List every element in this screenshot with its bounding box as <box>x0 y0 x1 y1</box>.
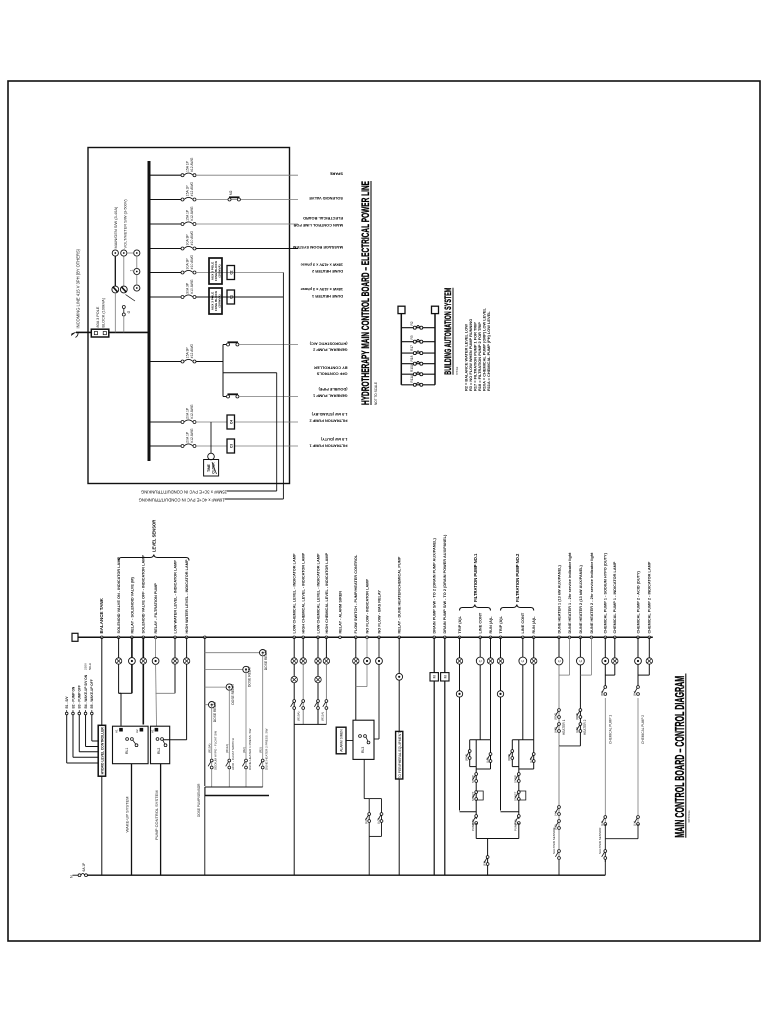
wire to collector Y326.4 <box>325 664 327 724</box>
contact low level CHEMICAL PUMP 1 <box>602 816 607 826</box>
bracket filtration pump no.1 <box>460 553 491 611</box>
wire siren to relay3 <box>346 740 353 742</box>
wire elbow jog <box>119 692 121 694</box>
wire heater1 merge <box>559 674 570 676</box>
svg-text:ACID - FLOAT SWITCH: ACID - FLOAT SWITCH <box>231 738 235 770</box>
coil dose relay 2 <box>243 666 249 672</box>
contact chem Y294.2 <box>291 700 296 710</box>
wire N rail <box>87 874 605 876</box>
contact salt sensor h <box>555 850 560 860</box>
wire rung CHEMICAL PUMP 2 lamp <box>648 637 650 658</box>
svg-text:LEVEL SENSOR: LEVEL SENSOR <box>152 520 157 552</box>
wire dose group output <box>205 795 269 797</box>
lamp trip Y500.5 <box>497 658 503 664</box>
svg-text:TRIP (A)L: TRIP (A)L <box>458 615 462 633</box>
contact chem Y326.4 <box>323 700 328 710</box>
wire incoming drop <box>76 331 91 333</box>
coil relay filtration pump <box>152 658 159 665</box>
svg-text:BY CONTROLLER: BY CONTROLLER <box>314 365 348 370</box>
wire starter loop Y522.8 <box>512 739 533 741</box>
contact LC2 <box>378 813 383 823</box>
wire time clock tee <box>210 422 212 453</box>
wire rung CHEMICAL PUMP 1 lamp <box>614 637 616 658</box>
svg-text:FILTRATION PUMP 2: FILTRATION PUMP 2 <box>309 418 348 423</box>
relay box RL2 pump control <box>150 726 169 764</box>
breaker 30A 3P branch X727.0 <box>181 295 196 299</box>
wire main bus 415V <box>148 161 151 461</box>
title main control board control diagram <box>672 674 691 838</box>
wire starter loop Y480.2 <box>470 739 491 741</box>
svg-text:GENERAL PUMP 2: GENERAL PUMP 2 <box>312 348 347 353</box>
svg-text:SALT/SW SENSOR: SALT/SW SENSOR <box>552 827 556 854</box>
svg-text:NO FLOW - BAS RELAY: NO FLOW - BAS RELAY <box>377 590 381 634</box>
svg-text:FILTRATION PUMP NO.2: FILTRATION PUMP NO.2 <box>515 553 520 602</box>
svg-text:R11A = CHEMICAL PUMP (PH) LO: R11A = CHEMICAL PUMP (PH) LOW LEVEL <box>486 311 491 391</box>
svg-text:HYDRO LEVEL CONTROLLER: HYDRO LEVEL CONTROLLER <box>101 727 105 775</box>
lamp chemical pump 2 <box>646 658 652 664</box>
incoming arrow <box>71 332 77 337</box>
svg-text:G: G <box>127 310 131 313</box>
svg-text:25MM² x 3C+E PVC IN CONDUIT/TR: 25MM² x 3C+E PVC IN CONDUIT/TRUNKING <box>141 490 227 495</box>
svg-text:CHEMICAL PUMP 2: CHEMICAL PUMP 2 <box>641 715 645 744</box>
svg-text:DRAIN PUMP S/W - TO 2 (DRAIN P: DRAIN PUMP S/W - TO 2 (DRAIN POWER AUX/P… <box>443 534 447 633</box>
svg-text:LOW CHEMICAL LEVEL - INDICATOR: LOW CHEMICAL LEVEL - INDICATOR LAMP <box>293 553 297 633</box>
svg-text:LINE CONT: LINE CONT <box>521 612 525 633</box>
contact chem Y318.0 <box>314 700 319 710</box>
svg-text:(R17): (R17) <box>507 754 511 761</box>
wire seal-in elbow Y533.7 <box>519 768 534 770</box>
contact R17 Y480.2 <box>466 750 471 760</box>
svg-text:15A 1P: 15A 1P <box>185 209 189 221</box>
svg-text:R18: R18 <box>410 355 414 361</box>
svg-text:(R11A): (R11A) <box>225 744 229 753</box>
svg-text:HEATER 2: HEATER 2 <box>583 719 587 735</box>
svg-text:STOP: STOP <box>471 775 475 783</box>
svg-text:15A 3P: 15A 3P <box>185 347 189 359</box>
wire rung no flow lamp <box>366 637 368 657</box>
wire CHEMICAL PUMP 1 merge <box>605 674 615 676</box>
svg-text:(R2): (R2) <box>259 747 263 753</box>
fuse box drain Y444.8 <box>441 673 449 681</box>
coil chemical pump 2 <box>635 658 642 665</box>
aux fuse block heater 1 <box>209 288 222 314</box>
svg-text:MAIN/GEN S/W (3-40A): MAIN/GEN S/W (3-40A) <box>113 206 118 248</box>
contact stop Y522.8 <box>515 773 520 783</box>
svg-text:TO PERIPHERAL EQUIPMENT: TO PERIPHERAL EQUIPMENT <box>398 732 402 779</box>
wire GP tee <box>222 345 224 397</box>
svg-text:CHEMICAL PUMP 2 - ACID (DUTY): CHEMICAL PUMP 2 - ACID (DUTY) <box>636 570 640 633</box>
wire lamp to collector Y318.0 <box>317 683 319 725</box>
wire filtration after breaker X578.0 <box>196 445 298 447</box>
svg-text:(HO): (HO) <box>575 727 579 733</box>
wire dose feed X319.3 <box>205 704 209 706</box>
contact sodium hypo - float sw <box>208 759 213 769</box>
lamp on rail Y294.2 <box>291 658 297 664</box>
contactor C1 heater 1 <box>227 290 235 304</box>
svg-text:C4: C4 <box>230 420 234 424</box>
wire rung run Y490.5 <box>490 637 492 658</box>
wire BAS rail 2 <box>434 314 436 385</box>
wire rung drain Y444.8 <box>444 637 446 672</box>
svg-text:ALARM SIREN: ALARM SIREN <box>340 729 344 752</box>
contact BAS R3 <box>413 340 423 344</box>
svg-text:(R17): (R17) <box>554 713 558 720</box>
wire chain mid Y480.2 <box>475 740 477 819</box>
svg-text:20A 1P: 20A 1P <box>185 407 189 419</box>
lamp trip Y459.5 <box>456 658 462 664</box>
relay box RL1 wake-up <box>113 726 149 764</box>
svg-text:PUMP: PUMP <box>471 823 475 831</box>
wire trip drop Y500.5 <box>501 811 519 813</box>
svg-text:(100kVA): (100kVA) <box>218 264 222 277</box>
wire rung solenoid on lamp <box>118 637 120 658</box>
svg-text:15A 1P: 15A 1P <box>185 185 189 197</box>
svg-text:BALANCE TANK: BALANCE TANK <box>99 597 104 633</box>
svg-text:(LL): (LL) <box>600 821 604 826</box>
wire tee vertical <box>119 692 132 694</box>
wire filtration after breaker X602.0 <box>196 421 298 423</box>
svg-text:DUNE HEATER 1 - 2hr service in: DUNE HEATER 1 - 2hr service indicator li… <box>568 552 572 634</box>
svg-text:(R17): (R17) <box>464 754 468 761</box>
contact acid - float switch <box>226 759 231 769</box>
contact start Y522.8 <box>515 791 520 801</box>
svg-text:C: C <box>579 659 583 662</box>
wire to second lamp Y318.0 <box>317 664 319 676</box>
coil line contactor Y522.8 <box>519 657 527 665</box>
wire GP2 riser <box>223 344 226 346</box>
svg-text:B4 - WAKE-UP S/V ON: B4 - WAKE-UP S/V ON <box>84 674 88 708</box>
wire low water jog <box>156 692 175 694</box>
svg-text:BLOCK (100kVA): BLOCK (100kVA) <box>102 297 106 327</box>
contact R17s heater2 <box>577 709 582 719</box>
wire chain3 a <box>136 275 138 285</box>
contact flow lock <box>484 856 489 866</box>
wire GP2 to label <box>239 344 298 346</box>
wire lamp to elbow <box>118 664 120 693</box>
lamp on rail Y318.0 <box>315 658 321 664</box>
svg-text:SOLENOID VALVE: SOLENOID VALVE <box>309 196 343 201</box>
wire GP1 to label <box>239 396 298 398</box>
wire rung flow switch <box>355 637 357 658</box>
svg-text:RL1: RL1 <box>125 748 129 754</box>
svg-text:SOLENOID VALVE ON - INDICATOR: SOLENOID VALVE ON - INDICATOR LAMP <box>117 556 121 633</box>
wire controller lead 1 <box>65 710 98 763</box>
title electrical power line <box>360 181 378 405</box>
contact start Y480.2 <box>473 791 478 801</box>
svg-text:FLOW SWITCH - PUMP/HEATER CONT: FLOW SWITCH - PUMP/HEATER CONTROL <box>354 554 358 633</box>
wire BAS rung R2 <box>401 327 435 329</box>
wire branch after breaker X800.0 <box>196 223 298 225</box>
start bridge Y480.2 <box>476 791 483 800</box>
wire branch at X775.5 bus to breaker <box>149 248 183 250</box>
svg-text:DOSE RELAY: DOSE RELAY <box>264 649 268 671</box>
fuse box drain Y434.2 <box>430 673 438 681</box>
wire branch after breaker X775.5 <box>196 248 298 250</box>
svg-text:PUMP CONTROL SYSTEM: PUMP CONTROL SYSTEM <box>154 790 159 840</box>
wire rung peripheral <box>398 637 400 673</box>
svg-text:15A 1P: 15A 1P <box>185 160 189 172</box>
svg-text:CHEMICAL PUMP 1 - SODIUM HYPO: CHEMICAL PUMP 1 - SODIUM HYPO (DUTY) <box>604 552 608 633</box>
contact chem Y303.2 <box>300 700 305 710</box>
wire BAS rung R18 <box>401 363 435 365</box>
svg-text:DOSE RELAY: DOSE RELAY <box>248 665 252 687</box>
coil chemical pump 1 <box>602 658 609 665</box>
breaker 30A 3P branch X775.5 <box>181 246 196 250</box>
coil dose relay 4 <box>209 702 215 708</box>
svg-text:LOW CHEMICAL LEVEL - INDICATOR: LOW CHEMICAL LEVEL - INDICATOR LAMP <box>316 553 320 633</box>
contact 4s heater <box>555 806 560 816</box>
svg-text:C: C <box>479 659 483 662</box>
svg-text:RELAY - SOLENOID VALVE (M): RELAY - SOLENOID VALVE (M) <box>130 577 134 634</box>
wire branch at X848.8 bus to breaker <box>149 174 183 176</box>
wire branch filtration X578.0 <box>149 445 183 447</box>
svg-text:DUNE HEATER 2 - 2hr service in: DUNE HEATER 2 - 2hr service indicator li… <box>590 552 594 634</box>
lamp run Y490.5 <box>487 658 493 664</box>
wire dose return Y229.3 <box>228 687 230 787</box>
wire rung solenoid off lamp <box>142 637 144 658</box>
wire BAS rail 1 <box>400 314 402 385</box>
svg-text:M2: M2 <box>229 190 233 195</box>
wire jog into relay3 <box>374 738 379 740</box>
wire seal-in leg Y533.7 <box>533 740 535 769</box>
wire chem to salt contact <box>604 839 606 862</box>
wire rung chem lamp Y303.2 <box>302 637 304 658</box>
svg-text:DOSE RELAY: DOSE RELAY <box>231 683 235 705</box>
svg-text:LINE CONT: LINE CONT <box>479 612 483 633</box>
svg-text:(R18): (R18) <box>575 713 579 720</box>
wire BAS rung R3 <box>401 341 435 343</box>
wire rung balance tank <box>101 637 103 875</box>
wire chain tie <box>127 252 134 254</box>
wire branch at X727.0 bus to breaker <box>149 296 183 298</box>
contact R17 Y522.8 <box>509 750 514 760</box>
svg-text:6A 1P: 6A 1P <box>82 862 86 872</box>
coil overload Y459.5 <box>456 691 462 697</box>
wire leader A <box>227 490 277 492</box>
svg-text:(100kVA): (100kVA) <box>218 294 222 307</box>
wire heater2 left <box>579 665 581 746</box>
svg-text:(R2): (R2) <box>242 747 246 753</box>
control L rail terminal <box>72 633 78 641</box>
contact stop Y480.2 <box>473 773 478 783</box>
coil no flow BAS relay <box>376 658 383 665</box>
wire selector 1 to incoming <box>114 293 116 333</box>
wire cable callout heaters <box>282 273 284 500</box>
coil relay solenoid valve <box>129 658 136 665</box>
svg-text:DOSE RELAY: DOSE RELAY <box>213 701 217 723</box>
wire loop jog <box>364 798 369 800</box>
wire relay3 output <box>363 759 365 798</box>
wire branch at X800.0 bus to breaker <box>149 223 183 225</box>
contact GP1 <box>227 394 239 398</box>
svg-text:DUNE HEATER 2 (13 kW AUX/PANEL: DUNE HEATER 2 (13 kW AUX/PANEL) <box>579 565 583 634</box>
wire branch at X751.5 bus to breaker <box>149 272 183 274</box>
svg-text:START: START <box>471 792 475 801</box>
svg-text:START: START <box>514 792 518 801</box>
svg-text:CHEMICAL PUMP 2 - INDICATOR LA: CHEMICAL PUMP 2 - INDICATOR LAMP <box>648 561 652 633</box>
svg-text:#12 AWG: #12 AWG <box>190 157 194 172</box>
svg-text:#12 AWG: #12 AWG <box>190 428 194 443</box>
wire chem1 chain <box>604 824 606 839</box>
contact dune heater 1 press. sw <box>242 759 247 769</box>
wire chain mid Y522.8 <box>518 740 520 819</box>
contact BAS R2 <box>413 326 423 330</box>
svg-text:RL2: RL2 <box>157 748 161 754</box>
svg-text:C: C <box>521 659 525 662</box>
svg-text:OFF CONTROLS: OFF CONTROLS <box>316 371 347 376</box>
wire chem2 chain <box>637 824 639 839</box>
svg-text:18kW x 415V x 3 phase: 18kW x 415V x 3 phase <box>300 287 343 292</box>
wire chem collector <box>294 723 326 725</box>
contact BAS R10A <box>413 372 423 376</box>
rail junction node circles <box>101 636 104 639</box>
contact R2s heater <box>555 820 560 830</box>
svg-text:TIME: TIME <box>207 464 211 472</box>
wire to second lamp Y294.2 <box>293 664 295 676</box>
wire high water into relay2 <box>163 739 187 741</box>
wire collector to N rail <box>487 839 489 876</box>
svg-text:DUNE HEATER 1 (13 kW AUX/PANEL: DUNE HEATER 1 (13 kW AUX/PANEL) <box>557 565 561 634</box>
svg-text:DUNE HEATER 1: DUNE HEATER 1 <box>311 294 343 299</box>
wire chem merge drop <box>605 838 638 840</box>
svg-text:MAIN CONTROL LINE FOR: MAIN CONTROL LINE FOR <box>293 223 343 228</box>
wire dose return Y211.7 <box>211 705 213 787</box>
svg-text:R2: R2 <box>410 321 414 325</box>
BAS terminal square 1 <box>398 306 405 313</box>
svg-text:16MM² x 4C+E PVC IN CONDUIT/TR: 16MM² x 4C+E PVC IN CONDUIT/TRUNKING <box>139 498 225 503</box>
breaker 15A 1P branch X800.0 <box>181 222 196 226</box>
coil heater 1 <box>555 657 563 665</box>
svg-text:A1: A1 <box>150 729 154 733</box>
wire dose feed X336.9 <box>205 686 226 688</box>
svg-text:#10 AWG: #10 AWG <box>190 255 194 270</box>
breaker 15A 1P branch X824.5 <box>181 197 196 201</box>
wire seal-in leg Y490.5 <box>490 740 492 769</box>
wire BAS rung R10A <box>401 373 435 375</box>
wire trip run Y500.5 <box>500 697 502 810</box>
svg-text:ELECTRICAL BOARD: ELECTRICAL BOARD <box>303 216 343 221</box>
svg-text:C2: C2 <box>230 270 234 274</box>
svg-text:50Hz: 50Hz <box>88 662 92 670</box>
wire controller lead 5 <box>91 710 99 741</box>
alarm siren box <box>336 727 346 754</box>
title building automation system <box>443 288 459 375</box>
wire rung relay filtration <box>155 637 157 657</box>
wire controller lead 3 <box>78 710 98 752</box>
wire rung heater1 lamp <box>569 637 571 675</box>
svg-text:#10 AWG: #10 AWG <box>190 231 194 246</box>
svg-text:R17: R17 <box>410 345 414 351</box>
svg-text:R11A: R11A <box>410 374 414 383</box>
contactor C2 heater 2 <box>227 266 235 280</box>
contact HOs heater2 <box>577 723 582 733</box>
lamp chemical level Y294.2 <box>291 676 297 682</box>
svg-text:FILTRATION PUMP 1: FILTRATION PUMP 1 <box>309 443 348 448</box>
svg-text:WAKE-UP SYSTEM: WAKE-UP SYSTEM <box>125 796 130 832</box>
wire chain3 b <box>136 256 138 268</box>
svg-text:(4s): (4s) <box>554 811 558 816</box>
svg-text:DUNE HEATER 1 PRESS. SW: DUNE HEATER 1 PRESS. SW <box>248 729 252 770</box>
wire rung chem lamp Y294.2 <box>293 637 295 658</box>
contact BAS R11A <box>413 383 423 387</box>
breaker 30A 3P branch X751.5 <box>181 270 196 274</box>
wire flow to relay3 <box>355 664 357 720</box>
breaker 20A 1P X578.0 <box>181 444 196 448</box>
wire rung no flow BAS <box>378 637 380 657</box>
svg-text:B1 - S/V: B1 - S/V <box>65 696 69 709</box>
svg-text:RUN (A)L: RUN (A)L <box>489 616 493 634</box>
hydrotherapy level controller <box>98 725 105 776</box>
wire trip drop Y459.5 <box>460 811 477 813</box>
wire CHEMICAL PUMP 2 merge <box>638 674 649 676</box>
svg-text:NOT TO SCALE: NOT TO SCALE <box>374 382 378 405</box>
selector switch S2 terminals <box>120 250 127 293</box>
wire dose feed X354.5 <box>205 669 243 671</box>
svg-text:(8s): (8s) <box>633 691 637 696</box>
svg-text:R3: R3 <box>410 335 414 339</box>
wire BAS relay to box <box>378 664 380 739</box>
wire rung heater1 coil <box>558 637 560 657</box>
svg-text:SALT/SW SENSOR: SALT/SW SENSOR <box>598 827 602 854</box>
wire coil filtration to relay2 <box>155 664 158 726</box>
svg-text:VOLT/METER S/W (3-500V): VOLT/METER S/W (3-500V) <box>123 199 128 249</box>
svg-text:STOP: STOP <box>514 775 518 783</box>
wire off-controls <box>223 372 277 374</box>
contact BAS R17 <box>413 351 423 355</box>
svg-text:A2: A2 <box>135 729 139 733</box>
wire rung relay solenoid <box>131 637 133 657</box>
wire branch after breaker X727.0 <box>196 296 283 298</box>
svg-text:LOW WATER LEVEL - INDICATOR LA: LOW WATER LEVEL - INDICATOR LAMP <box>173 560 177 634</box>
svg-text:M: M <box>443 675 447 678</box>
lamp flow switch <box>353 658 359 664</box>
contact R2 Y480.2 <box>473 815 478 825</box>
BAS terminal square 2 <box>432 306 439 313</box>
wire CHEMICAL PUMP 2 down chain <box>637 698 639 824</box>
svg-text:(HYDROSTATIC A/C): (HYDROSTATIC A/C) <box>309 341 347 346</box>
to peripheral equipment box <box>396 731 403 779</box>
svg-text:#12 AWG: #12 AWG <box>190 404 194 419</box>
lamp solenoid valve on <box>115 658 121 664</box>
contact GP2 <box>227 342 239 346</box>
wire branch after breaker X824.5 <box>196 199 298 201</box>
svg-text:(R10A): (R10A) <box>208 743 212 753</box>
wire N stub <box>73 874 79 876</box>
wire chem to N rail <box>293 724 295 875</box>
svg-text:RELAY - DUNE HEATER/CHEMICAL P: RELAY - DUNE HEATER/CHEMICAL PUMP <box>398 556 402 633</box>
svg-text:MASSAGE ROOM SYSTEM: MASSAGE ROOM SYSTEM <box>293 245 343 250</box>
fuse block 80A 3 POLE <box>91 329 109 337</box>
svg-text:B2 - PUMP ON: B2 - PUMP ON <box>71 686 75 708</box>
svg-text:1.5 kW (DUTY): 1.5 kW (DUTY) <box>320 437 347 442</box>
contact R17s heater1 <box>555 709 560 719</box>
svg-text:CHEMICAL PUMP 1 - INDICATOR LA: CHEMICAL PUMP 1 - INDICATOR LAMP <box>613 561 617 633</box>
svg-text:NO FLOW - INDICATOR LAMP: NO FLOW - INDICATOR LAMP <box>365 579 369 634</box>
wire rung CHEMICAL PUMP 1 coil <box>604 637 606 657</box>
wire dose feed X371.3 <box>205 652 260 654</box>
wire starter collector <box>476 838 519 840</box>
wire dose rail <box>204 637 206 786</box>
svg-text:INCOMING LINE 415 V 3PH (BY OT: INCOMING LINE 415 V 3PH (BY OTHERS) <box>76 248 81 328</box>
svg-text:SOLENOID VALVE OFF - INDICATOR: SOLENOID VALVE OFF - INDICATOR LAMP <box>142 555 146 634</box>
svg-text:NOT TO SCALE: NOT TO SCALE <box>687 810 691 822</box>
wire rung chem lamp Y326.4 <box>325 637 327 658</box>
wire branch after breaker X751.5 <box>196 272 283 274</box>
breaker 20A 1P X602.0 <box>181 420 196 424</box>
svg-text:NOT TO SCALE: NOT TO SCALE <box>455 367 459 375</box>
svg-text:C: C <box>557 659 561 662</box>
contact low level CHEMICAL PUMP 2 <box>634 816 639 826</box>
